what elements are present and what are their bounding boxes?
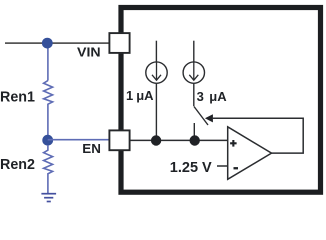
IC box outline [121, 8, 321, 193]
current source I1 circle [146, 62, 167, 83]
node junction EN (blue dot) [42, 135, 53, 146]
svg-text:3: 3 [197, 89, 204, 104]
wire blue vertical divider string [47, 43, 49, 81]
resistor Ren1 [44, 81, 53, 136]
node junction VIN (blue dot) [42, 38, 53, 49]
current source I1 arrow [152, 63, 161, 81]
svg-text:1: 1 [126, 88, 133, 103]
wire EN (blue, dot to EN pin) [48, 139, 109, 141]
svg-text:VIN: VIN [77, 45, 101, 60]
pin EN (terminal square) [109, 130, 129, 150]
wire I1 to EN net [155, 83, 157, 140]
wire VIN input (gray, left of box) [5, 42, 109, 44]
svg-text:μA: μA [136, 88, 154, 103]
resistor Ren2 [44, 145, 53, 193]
current source I1 stub wire top [155, 41, 157, 62]
switch blade [194, 107, 208, 126]
node junction I1/EN (black dot) [151, 135, 161, 145]
comparator minus sign [234, 167, 239, 169]
svg-text:μA: μA [209, 89, 227, 104]
current source I2 arrow [189, 63, 198, 81]
node junction switch/EN (black dot) [190, 135, 200, 145]
wire I2 to switch top contact [193, 83, 195, 106]
current source I2 circle [183, 62, 204, 83]
wire EN internal (pin to comparator +) [130, 139, 228, 141]
svg-text:Ren1: Ren1 [0, 90, 35, 106]
switch bottom contact stub [193, 123, 195, 140]
comparator plus sign [230, 140, 237, 147]
current source I2 stub wire top [193, 41, 195, 62]
ground [41, 194, 56, 202]
wire inverting input [217, 165, 228, 167]
pin VIN (terminal square) [109, 33, 129, 53]
comparator U1 triangle [228, 127, 272, 180]
wire comparator output [213, 118, 303, 153]
svg-text:Ren2: Ren2 [0, 157, 35, 173]
svg-text:EN: EN [82, 141, 101, 156]
svg-text:1.25 V: 1.25 V [170, 160, 212, 176]
arrowhead feedback to switch [205, 114, 213, 122]
